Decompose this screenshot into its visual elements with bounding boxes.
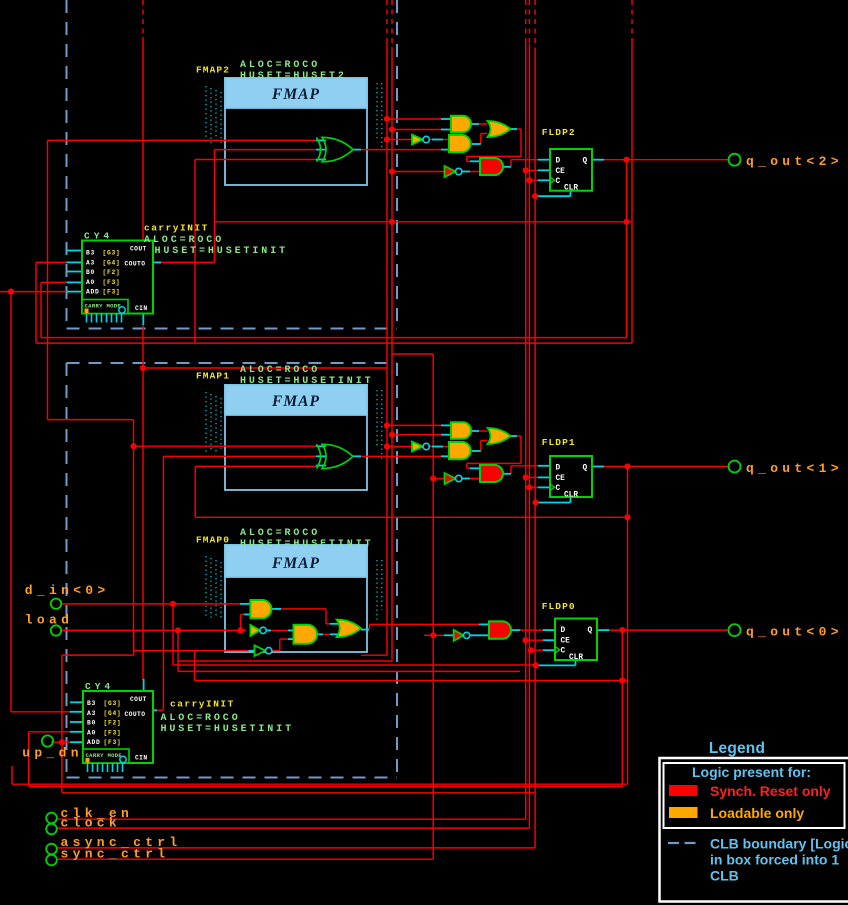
svg-text:Logic present for:: Logic present for: <box>692 764 811 780</box>
svg-text:CIN: CIN <box>135 305 148 312</box>
wire FLDP1 CLR tap (cyan) <box>536 497 571 503</box>
wire up_dn vertical x=62 <box>61 655 63 793</box>
node FLDP2 pin stubs <box>538 160 604 181</box>
junction bus387 row2 b <box>384 443 390 449</box>
svg-text:CLR: CLR <box>564 492 578 500</box>
svg-text:COUT: COUT <box>130 696 147 703</box>
and-gate AND-c in FMAP0 (loadable, orange) <box>294 625 318 644</box>
wire vertical x=133.5 down to INV-d input <box>134 420 249 651</box>
pad q_out<0> <box>729 624 741 636</box>
junction clk_en FLDP2 <box>523 167 529 173</box>
wire CLR0 row horizontal y=665 <box>173 664 536 666</box>
svg-text:A0: A0 <box>87 729 96 736</box>
svg-text:COUTO: COUTO <box>125 261 146 268</box>
svg-text:Q: Q <box>588 627 593 635</box>
svg-text:ALOC=ROCO: ALOC=ROCO <box>240 60 320 71</box>
svg-text:CARRY MODE: CARRY MODE <box>86 752 123 759</box>
wire INV1-B output to AND2-B input1 <box>430 446 450 448</box>
junction bus387 row1 a <box>384 116 390 122</box>
junction sync INV-e <box>430 632 436 638</box>
svg-text:ADD: ADD <box>86 289 99 296</box>
or-gate OR-C in FMAP0 (loadable, orange) <box>337 620 362 638</box>
wire INV1-A output to AND2-A input1 <box>430 139 450 141</box>
svg-text:Synch. Reset only: Synch. Reset only <box>710 783 831 799</box>
svg-text:CLR: CLR <box>564 185 578 193</box>
svg-text:FLDP1: FLDP1 <box>542 437 576 448</box>
node CY4-2 COUTO stub <box>153 709 157 711</box>
wire INV2-A output to RAND-A input2 <box>462 171 480 173</box>
FMAP block U_FMAP2 (top) <box>225 78 367 185</box>
svg-text:CLB boundary [Logic: CLB boundary [Logic <box>710 836 848 852</box>
svg-text:CE: CE <box>556 168 566 176</box>
wire FLDP2 C from clock bus <box>529 179 550 181</box>
junction q2 node <box>623 157 629 163</box>
svg-text:A0: A0 <box>86 279 95 286</box>
svg-text:FMAP1: FMAP1 <box>196 371 230 382</box>
svg-text:q_out<0>: q_out<0> <box>746 625 843 640</box>
wire CY4-1 ADD horizontal y=291.6 from left edge <box>0 291 66 293</box>
junction bus392 sync row1 <box>389 168 395 174</box>
svg-text:carryINIT: carryINIT <box>144 223 209 234</box>
legend dashed symbol <box>668 842 696 844</box>
wire FLDP0 CE from clk_en bus <box>526 639 556 641</box>
svg-text:CIN: CIN <box>135 755 148 762</box>
wire sync to INV2-B input y=478.5 <box>433 478 444 480</box>
wire INV1-B input from bus x=387, y=446.5 <box>387 446 412 448</box>
pad q_out<1> <box>729 461 741 473</box>
dotted carry-decoration right of FMAP1 <box>377 390 382 460</box>
node CY4-1 left pin stubs <box>66 251 82 292</box>
wire XOR-B output to AND2-B input2, y=456.3 <box>361 455 449 457</box>
wire AND1-B input1 from bus x=387, y=425.4 <box>387 424 451 426</box>
svg-text:C: C <box>556 485 561 493</box>
svg-text:FMAP: FMAP <box>271 555 320 572</box>
wire q feedback vertical x=632 (off-page top) <box>631 0 633 343</box>
wire sync_ctrl horizontal y=859.2 <box>57 858 434 860</box>
wire OR1-A output down to RAND-A input1 <box>467 129 521 161</box>
wire q2 feedback down x=626.5 <box>626 160 628 338</box>
junction clock FLDP2 <box>526 177 532 183</box>
legend orange swatch <box>669 807 698 818</box>
node CY4-2 left pin stubs <box>70 702 83 742</box>
node FLDP0 pin stubs <box>543 630 609 650</box>
junction q0 y678 <box>619 677 625 683</box>
and-gate AND2-B (loadable, orange) <box>449 442 471 459</box>
wire CY4-1 A3 vertical x=36 <box>35 262 37 343</box>
svg-text:[G3]: [G3] <box>103 250 121 257</box>
FMAP block U_FMAP1 (middle) <box>225 385 367 490</box>
svg-text:ADD: ADD <box>87 739 100 746</box>
wire carry branch horizontal y=368 <box>143 367 387 369</box>
FMAP block U_FMAP0 (bottom) <box>225 545 367 652</box>
junction up_dn/ADD1 <box>8 289 14 295</box>
svg-text:carryINIT: carryINIT <box>170 699 235 710</box>
junction XOR-B in1 <box>130 443 136 449</box>
wire OR1-B output down to RAND-B input1 <box>467 436 521 468</box>
inverter INV-e (sync-reset, red) <box>454 630 464 641</box>
node gate cluster C stubs <box>240 604 521 651</box>
junction bus387 row1 c <box>384 136 390 142</box>
svg-text:ALOC=ROCO: ALOC=ROCO <box>240 528 320 539</box>
wire clock horizontal y=828.1 <box>57 827 530 829</box>
inverter INV2-A (sync-reset, red) <box>445 166 456 177</box>
svg-text:ALOC=ROCO: ALOC=ROCO <box>144 235 224 246</box>
wire XOR-B input3 elbow x=195.2 from q1 line <box>195 466 316 517</box>
svg-text:CE: CE <box>556 475 566 483</box>
wire AND-a output to OR-C input1 <box>278 609 339 624</box>
junction carry branch <box>140 365 146 371</box>
wire FLDP2 CE from clk_en bus <box>526 169 550 171</box>
junction sync INV2-B <box>430 475 436 481</box>
wire FLDP0 CLR tap (cyan) <box>536 660 576 665</box>
wire load branch vertical x=178 <box>177 630 179 671</box>
dotted carry-decoration left of FMAP1 <box>206 392 221 452</box>
inverter INV1-B (loadable, orange) <box>412 442 423 452</box>
CLB boundary box 1 (top) <box>67 0 398 329</box>
flip-flop FLDP1 <box>550 456 592 500</box>
xor-gate XOR-A inside FMAP2 <box>322 137 353 161</box>
svg-text:CY4: CY4 <box>84 231 113 242</box>
svg-text:FMAP0: FMAP0 <box>196 535 230 546</box>
wire horizontal y=343.1 from CY4-1 A3 loop <box>36 342 632 344</box>
wire AND1-B output to OR1-B input1 <box>471 430 488 432</box>
svg-text:CY4: CY4 <box>85 681 114 692</box>
wire FLDP1 Q to q_out<1> pad <box>602 466 729 468</box>
svg-text:B0: B0 <box>86 269 95 276</box>
wire INV1-A input from bus x=387, y=139.5 <box>387 139 412 141</box>
wire INV-b output to AND-c input1 <box>268 630 296 632</box>
inverter INV1-A (loadable, orange) <box>412 135 423 145</box>
wire XOR-A input3 horizontal y=159.5 and vertical x=195 <box>195 160 316 344</box>
legend box <box>660 758 848 902</box>
svg-text:[G3]: [G3] <box>104 700 122 707</box>
wire d_in branch vertical x=173 <box>172 604 174 665</box>
svg-text:up_dn: up_dn <box>22 746 83 761</box>
wire COUTO2 horizontal y=710.3 <box>157 709 163 711</box>
wire AND1-A input1 from bus x=387, y=119 <box>387 118 451 120</box>
CY4 block 1 (top) <box>82 241 153 323</box>
node XOR-B input stubs <box>316 446 361 465</box>
dotted carry-decoration left of FMAP0 <box>206 556 221 618</box>
junction d_in link <box>170 601 176 607</box>
svg-text:[F3]: [F3] <box>104 739 122 746</box>
pad load <box>51 625 61 635</box>
junction q1 y517 <box>624 514 630 520</box>
dotted carry-decoration right of FMAP2 <box>377 83 382 150</box>
wire CY4-1 A0 vertical x=41 <box>40 282 42 337</box>
node CY4-1 CIN stub <box>142 313 144 325</box>
svg-text:[G4]: [G4] <box>103 259 121 266</box>
junction load/x240 <box>237 627 243 633</box>
svg-text:FMAP2: FMAP2 <box>196 65 230 76</box>
wire q1 feedback horizontal y=517.3 <box>195 516 627 518</box>
wire CY4-1 A3 horizontal y=262.4 <box>36 261 66 263</box>
wire load horizontal y=630.4 to INV-b input <box>61 629 246 631</box>
pad q_out<2> <box>729 154 741 166</box>
wire CY4-1 A0 horizontal y=282.4 <box>41 281 66 283</box>
junction clock FLDP1 <box>526 484 532 490</box>
svg-text:[F3]: [F3] <box>103 289 121 296</box>
junction bus387 row2 a <box>384 422 390 428</box>
wire clock bus vertical x=529.4 <box>528 0 530 828</box>
wire q0 tie vertical x=622.3 down to bottom <box>621 630 623 786</box>
svg-text:[F2]: [F2] <box>104 720 122 727</box>
svg-text:FLDP0: FLDP0 <box>542 601 576 612</box>
wire FLDP1 CE from clk_en bus <box>526 476 550 478</box>
svg-text:CLB: CLB <box>710 868 739 884</box>
junction load link <box>175 627 181 633</box>
svg-text:[F2]: [F2] <box>103 269 121 276</box>
wire AND-c output to OR-C input2 <box>316 633 338 635</box>
junction async FLDP0 CLR <box>533 662 539 668</box>
svg-text:sync_ctrl: sync_ctrl <box>61 846 170 861</box>
and-gate RAND-B (sync-reset, red) <box>480 465 503 482</box>
node FLDP1 pin stubs <box>538 466 604 488</box>
wire vertical x=47.5 from FMAP2 input down to corner <box>47 140 49 419</box>
wire up_dn horizontal y=742.2 <box>51 741 70 743</box>
pad up_dn <box>42 735 53 746</box>
xor-gate XOR-B inside FMAP1 <box>322 444 353 468</box>
wire horizontal y=680.5 <box>195 680 628 682</box>
wire AND1-B input2 from bus x=392, y=434.7 <box>392 434 451 436</box>
svg-text:HUSET=HUSETINIT: HUSET=HUSETINIT <box>240 376 374 387</box>
node CY4-1 COUTO stub <box>153 261 161 263</box>
wire AND2-A output jog to OR1-A input2 <box>471 134 488 145</box>
pad clock <box>46 824 57 835</box>
svg-text:FMAP: FMAP <box>271 393 320 410</box>
svg-text:FLDP2: FLDP2 <box>542 127 576 138</box>
wire horizontal y=221.8 from COUTO1 column <box>215 221 632 223</box>
wire INV-d output to AND-c input2 <box>272 639 296 651</box>
and-gate RAND-A (sync-reset, red) <box>480 158 503 175</box>
wire clk_en horizontal y=819.2 <box>57 818 526 820</box>
flip-flop FLDP2 <box>550 149 592 193</box>
wire FLDP0 Q to q_out<0> pad <box>607 629 729 631</box>
wire horizontal y=354 <box>392 353 433 355</box>
wire COUTO2 to XOR-B input2: vertical x=163.4, horizontal y=456.3 <box>163 456 316 710</box>
wire CY4-1 CIN carry chain x=143 down to CY4-2 COUT <box>142 325 144 680</box>
svg-text:C: C <box>556 178 561 186</box>
svg-text:CARRY MODE: CARRY MODE <box>85 303 122 310</box>
wire INV2-B output to RAND-B input2 <box>462 478 480 480</box>
svg-text:q_out<1>: q_out<1> <box>746 461 843 476</box>
svg-text:A3: A3 <box>86 259 95 266</box>
svg-text:A3: A3 <box>87 710 96 717</box>
node gate cluster B stubs <box>432 425 517 478</box>
wire OR-C output jog <box>370 624 480 629</box>
svg-text:B0: B0 <box>87 720 96 727</box>
wire XOR-A input1 horizontal y=140.4 <box>48 139 317 141</box>
wire bottom horizontal y=786.5 <box>29 786 623 788</box>
svg-text:[F3]: [F3] <box>104 729 122 736</box>
wire CY4-2 A0 elbow x=28.7 <box>29 732 70 787</box>
svg-text:Q: Q <box>583 465 588 473</box>
svg-text:clock: clock <box>61 815 122 830</box>
svg-text:HUSET=HUSETINIT: HUSET=HUSETINIT <box>161 724 295 735</box>
wire XOR-B input1 horizontal y=446.2 <box>134 445 317 447</box>
and-gate AND-a in FMAP0 (loadable, orange) <box>250 600 271 618</box>
wire up_dn vertical x=11 down to CY4-2 A3 <box>11 292 70 712</box>
svg-text:d_in<0>: d_in<0> <box>25 583 110 598</box>
junction async FLDP1 CLR <box>533 499 539 505</box>
wire FLDP2 CLR tap (cyan) <box>538 191 571 197</box>
wire sync_ctrl bus vertical x=433.2 <box>432 354 434 859</box>
svg-text:q_out<2>: q_out<2> <box>746 154 843 169</box>
wire bus vertical x=387 (off-page top, down to y=655) <box>386 0 388 655</box>
wire async_ctrl bus vertical x=535.1 <box>534 0 536 848</box>
inverter INV-b in FMAP0 (loadable, orange) <box>250 625 260 636</box>
wire clk_en bus vertical x=525.7 <box>525 0 527 819</box>
node XOR-A input stubs <box>316 140 361 159</box>
svg-text:C: C <box>561 648 566 656</box>
svg-text:HUSET=HUSETINIT: HUSET=HUSETINIT <box>240 539 374 550</box>
legend red swatch <box>669 785 698 796</box>
wire horizontal y=792.8 <box>62 792 535 794</box>
wire FLDP1 C from clock bus <box>529 486 550 488</box>
wire FLDP2 Q to q_out<2> pad <box>602 159 729 161</box>
wire horizontal y=419.6 <box>48 419 134 421</box>
svg-text:D: D <box>561 627 566 635</box>
svg-text:B3: B3 <box>87 700 96 707</box>
wire AND-a input2 elbow x=240.5 <box>241 614 245 630</box>
wire q1 bottom corner into y=784.2 <box>12 783 628 785</box>
inverter INV2-B (sync-reset, red) <box>445 473 456 484</box>
junction async FLDP2 CLR <box>532 193 538 199</box>
flip-flop FLDP0 <box>555 619 597 663</box>
wire load Z-branch x=133.7 <box>62 631 134 655</box>
wire horizontal y=661 <box>178 660 392 662</box>
svg-text:CE: CE <box>561 638 571 646</box>
svg-text:[F3]: [F3] <box>103 279 121 286</box>
svg-text:D: D <box>556 158 561 166</box>
pad sync_ctrl <box>46 855 57 866</box>
svg-text:load: load <box>25 613 73 628</box>
junction bus392 row1 <box>389 126 395 132</box>
and-gate AND2-A (loadable, orange) <box>449 135 471 152</box>
svg-text:ALOC=ROCO: ALOC=ROCO <box>161 713 241 724</box>
svg-text:Legend: Legend <box>709 740 765 757</box>
wire AND1-A input2 from bus x=392, y=129.5 <box>392 129 451 131</box>
wire y=784 left vertical x=12 <box>11 766 13 784</box>
junction up_dn wire <box>59 739 65 745</box>
wire sync to INV-e input y=635.3 <box>424 634 444 636</box>
wire bus vertical x=392 (off-page top, down to bottom horizontal) <box>391 0 393 661</box>
junction clk_en FLDP1 <box>523 474 529 480</box>
wire q1 feedback vertical x=627.5 down to bottom <box>627 467 629 785</box>
wire horizontal y=671.4 <box>178 670 520 672</box>
wire AND1-A output to OR1-A input1 <box>471 123 488 125</box>
junction bus392 y222 <box>389 219 395 225</box>
svg-text:Q: Q <box>583 158 588 166</box>
or-gate OR1-A (loadable, orange) <box>488 121 511 137</box>
svg-text:COUT: COUT <box>130 246 147 253</box>
or-gate OR1-B (loadable, orange) <box>488 428 511 444</box>
wire AND2-B output jog to OR1-B input2 <box>471 441 488 452</box>
svg-text:CLR: CLR <box>569 654 583 662</box>
node gate cluster A stubs <box>432 119 517 172</box>
wire RAND-A output to FLDP2 D input <box>511 160 550 167</box>
wire COUTO1 to XOR-A input2: horizontal y=262.4 and vertical x=214.5 <box>161 150 316 263</box>
wire d_in horizontal y=603.9 to AND-a input1 <box>61 603 240 605</box>
wire FLDP0 C from clock bus <box>531 649 555 651</box>
and-gate AND1-A (loadable, orange) <box>451 116 471 133</box>
junction bus392 row2 <box>389 432 395 438</box>
inverter INV-d in FMAP0 (unfilled) <box>255 645 266 656</box>
wire RAND-B output to FLDP1 D input <box>511 466 550 474</box>
svg-text:COUTO: COUTO <box>125 711 146 718</box>
dotted carry-decoration left of FMAP2 <box>206 86 221 143</box>
CLB boundary box 2 (middle) <box>67 363 398 778</box>
pad async_ctrl <box>46 844 57 855</box>
junction clk_en FLDP0 <box>522 637 528 643</box>
svg-text:Loadable only: Loadable only <box>710 805 804 821</box>
wire carry COUT1 off-page vertical x=143 <box>142 0 144 241</box>
and-gate RAND-C (sync-reset, red) <box>489 621 511 638</box>
wire H655.2 stub at V387 bottom <box>361 654 387 656</box>
svg-text:D: D <box>556 465 561 473</box>
svg-text:ALOC=ROCO: ALOC=ROCO <box>240 365 320 376</box>
junction q1 node <box>624 463 630 469</box>
wire XOR-A output to AND2-A input2, y=149.6 <box>361 149 449 151</box>
wire sync to INV2-A input y=171.5 <box>392 171 445 173</box>
junction q0 node <box>619 627 625 633</box>
pad d_in<0> <box>51 599 61 609</box>
node CY4-2 COUT stub <box>143 679 145 691</box>
svg-text:[G4]: [G4] <box>104 710 122 717</box>
junction q2 y222 <box>623 219 629 225</box>
junction clock FLDP0 <box>528 647 534 653</box>
wire async_ctrl horizontal y=847.9 <box>57 847 536 849</box>
dotted carry-decoration right of FMAP0 <box>377 560 382 623</box>
CY4 block 2 (bottom) <box>83 691 153 772</box>
wire RAND-C output to FLDP0 D input <box>520 629 555 631</box>
svg-text:HUSET=HUSETINIT: HUSET=HUSETINIT <box>155 246 289 257</box>
wire horizontal y=337.6 from CY4-1 A0 loop <box>41 337 627 339</box>
svg-text:B3: B3 <box>86 250 95 257</box>
svg-text:FMAP: FMAP <box>271 86 320 103</box>
pad clk_en <box>46 813 57 824</box>
svg-text:in box forced into 1: in box forced into 1 <box>710 852 839 868</box>
wire vertical x=194.5 <box>194 651 196 681</box>
svg-text:HUSET=HUSET2: HUSET=HUSET2 <box>240 71 347 82</box>
and-gate AND1-B (loadable, orange) <box>451 422 471 439</box>
